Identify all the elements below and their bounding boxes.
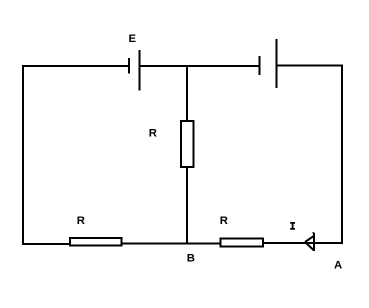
svg-text:R: R: [149, 128, 157, 140]
svg-text:B: B: [187, 253, 195, 265]
wire: top middle horizontal (cell E to second cell, through node above B branch): [140, 65, 259, 67]
svg-text:R: R: [220, 215, 228, 227]
battery cell E: short plate (negative): [128, 58, 130, 74]
wire: bottom right horizontal (right resistor through arrow to bottom-right corner): [263, 242, 342, 244]
battery cell 2: long plate (positive): [276, 39, 278, 88]
label R (bottom right resistor): [220, 215, 228, 227]
label E: [129, 33, 137, 45]
wire: top-right horizontal (cell 2 to top-right corner): [277, 65, 342, 67]
wire: middle branch vertical lower (resistor R down to node B): [186, 167, 188, 244]
wire: bottom-left horizontal (corner to left resistor): [22, 243, 70, 245]
current arrow I (open arrowhead pointing left on bottom wire): [305, 233, 315, 252]
battery cell E: long plate (positive): [139, 50, 141, 91]
label I (current): [290, 222, 295, 230]
resistor R (bottom right, horizontal): [221, 239, 264, 247]
resistor R (bottom left, horizontal): [70, 238, 122, 246]
label R (middle resistor): [149, 128, 157, 140]
wire: left vertical (top-left corner down to bottom-left corner): [22, 65, 24, 245]
svg-text:E: E: [129, 33, 137, 45]
resistor R (middle branch, vertical): [181, 121, 194, 167]
node A label: [334, 260, 342, 272]
wire: bottom middle horizontal (left resistor to node B to right resistor): [122, 243, 220, 245]
battery cell 2: short plate (negative): [259, 56, 261, 75]
svg-text:A: A: [334, 260, 342, 272]
label R (bottom left resistor): [77, 215, 85, 227]
wire: right vertical (top-right corner down to bottom-right corner): [341, 65, 343, 245]
svg-text:R: R: [77, 215, 85, 227]
node B label: [187, 253, 195, 265]
wire: top-left horizontal (corner to cell E): [22, 65, 129, 67]
wire: middle branch vertical upper (top wire down to resistor R): [186, 65, 188, 121]
